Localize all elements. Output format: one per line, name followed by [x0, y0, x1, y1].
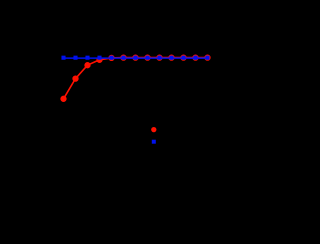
red series markers: [61, 55, 210, 102]
legend blue square marker: [152, 140, 156, 144]
blue series line: [64, 57, 208, 59]
blue series markers: [61, 56, 209, 60]
red series line: [64, 58, 208, 99]
legend red circle marker: [151, 127, 156, 132]
